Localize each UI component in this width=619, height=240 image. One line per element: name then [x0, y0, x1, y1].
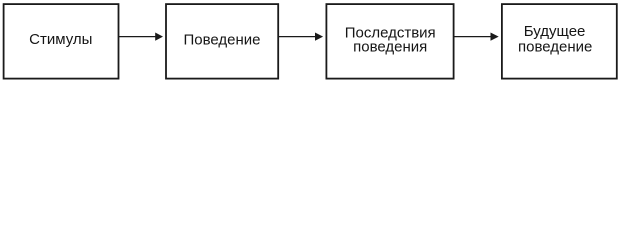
arrow 2: [278, 33, 323, 41]
arrow 3: [454, 33, 499, 41]
svg-text:Стимулы: Стимулы: [29, 31, 92, 48]
arrow 1: [119, 33, 164, 41]
box Будущее поведение: [502, 4, 617, 79]
svg-text:поведение: поведение: [518, 38, 592, 55]
box Поведение: [166, 4, 278, 79]
svg-text:Поведение: Поведение: [183, 31, 260, 48]
box Стимулы: [4, 4, 119, 79]
svg-text:поведения: поведения: [353, 38, 427, 55]
box Последствия поведения: [326, 4, 453, 79]
